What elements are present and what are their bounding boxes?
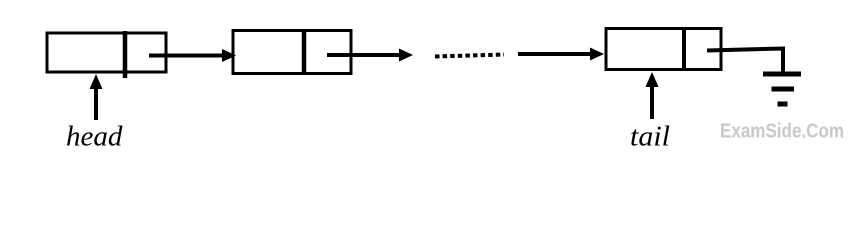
- head pointer arrow: [90, 74, 103, 120]
- node N3 box (tail node): [606, 29, 721, 70]
- watermark ExamSide.Com: [720, 121, 844, 143]
- label head: [66, 121, 123, 153]
- svg-text:head: head: [66, 121, 123, 153]
- wire arrow ellipsis to N3: [518, 48, 604, 61]
- node N2 box: [233, 31, 351, 74]
- node N1 pointer-field divider: [123, 31, 128, 78]
- node N1 box (head node): [47, 33, 166, 72]
- dotted wire (ellipsis): [435, 55, 504, 57]
- node N2 pointer-field divider: [302, 30, 307, 75]
- wire N3 to ground: [707, 49, 783, 75]
- ground (NULL) symbol: [763, 74, 801, 104]
- node N3 pointer-field divider: [682, 27, 686, 70]
- wire arrow N2 to ellipsis: [327, 49, 413, 62]
- svg-text:ExamSide.Com: ExamSide.Com: [720, 121, 844, 143]
- svg-text:tail: tail: [630, 121, 670, 153]
- tail pointer arrow: [646, 72, 659, 119]
- wire arrow N1 to N2: [149, 49, 236, 62]
- label tail: [630, 121, 670, 153]
